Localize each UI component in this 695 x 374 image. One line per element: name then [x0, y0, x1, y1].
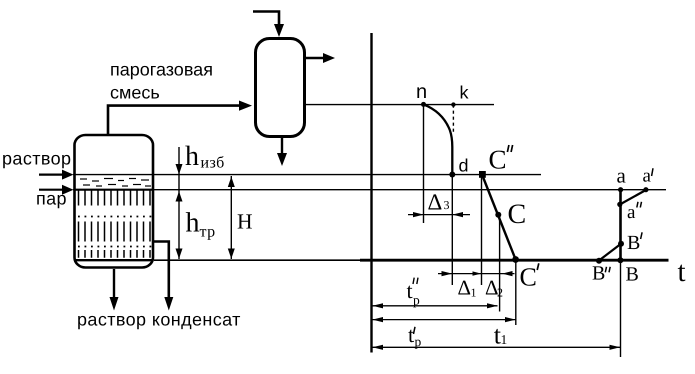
point d: [449, 172, 455, 178]
delta3 dimension: [408, 214, 470, 216]
point a: [618, 187, 623, 192]
svg-text:парогазовая: парогазовая: [110, 60, 213, 80]
svg-text:изб: изб: [201, 155, 225, 172]
svg-text:Δ: Δ: [428, 190, 443, 215]
svg-text:d: d: [459, 156, 469, 176]
separator bottom arrow: [277, 153, 287, 166]
steam inlet arrow: [39, 189, 62, 191]
svg-text:a: a: [627, 202, 636, 223]
svg-text:C: C: [508, 199, 527, 230]
top pipe from evaporator: [108, 106, 240, 134]
svg-text:t: t: [408, 322, 414, 347]
thin vertical below d: [451, 175, 453, 286]
h_izb dimension line: [178, 147, 180, 259]
point C2 square: [479, 171, 486, 178]
bottom arrow 1: [110, 297, 119, 311]
svg-text:h: h: [186, 208, 200, 239]
point B1: [618, 241, 624, 247]
point n: [421, 102, 426, 107]
svg-text:1: 1: [501, 332, 508, 347]
separator right outlet arrow: [306, 57, 324, 59]
svg-text:раствор: раствор: [2, 148, 71, 168]
point B: [617, 257, 623, 263]
svg-text:h: h: [185, 141, 199, 172]
steam level line (y=189.7): [73, 189, 666, 191]
t-axis thin left part: [154, 259, 372, 261]
tube dot row 2: [78, 246, 152, 248]
tube dot row 1: [78, 216, 152, 218]
thin vertical below C2: [481, 175, 483, 286]
svg-text:Δ: Δ: [458, 275, 472, 299]
svg-text:пар: пар: [36, 188, 67, 208]
arrow into separator: [239, 101, 252, 111]
tp1 dimension: [373, 319, 516, 321]
thin vertical below C1: [515, 260, 517, 326]
svg-text:B: B: [626, 263, 639, 285]
svg-text:t: t: [678, 256, 686, 288]
svg-text:H: H: [237, 210, 253, 234]
liquid level band line (solution line y=174.5): [73, 174, 541, 176]
point C1: [512, 256, 519, 263]
thin vertical below C: [499, 215, 501, 312]
dashed k drop line: [452, 105, 454, 133]
separator top arrow: [274, 24, 284, 37]
svg-text:C: C: [520, 263, 537, 292]
point C: [495, 212, 501, 218]
svg-text:p: p: [413, 293, 420, 308]
vertical temperature axis: [370, 33, 372, 353]
t1 dimension: [373, 346, 621, 348]
svg-text:тр: тр: [200, 224, 216, 241]
vapor line from separator to graph (n-k line): [306, 104, 494, 106]
condensate side pipe: [153, 242, 169, 299]
cooling curve n-d: [424, 104, 453, 174]
tube bundle verticals band 1: [79, 191, 151, 206]
vertical a-B line: [619, 190, 622, 261]
svg-text:2: 2: [497, 286, 503, 300]
H dimension line: [230, 176, 232, 259]
svg-text:смесь: смесь: [110, 83, 160, 103]
bottom arrow 2: [164, 297, 173, 311]
bottom tube sheet: [76, 259, 152, 261]
tp2 dimension: [373, 305, 498, 307]
svg-text:t: t: [407, 278, 413, 303]
svg-text:a: a: [617, 164, 627, 188]
point k: [451, 102, 455, 106]
point a2: [617, 202, 622, 207]
delta1 delta2 dimension: [438, 273, 515, 275]
point a1: [643, 187, 648, 192]
bottom pipe from vessel: [113, 269, 115, 298]
tube bundle verticals band 3: [79, 250, 151, 258]
svg-text:B: B: [627, 232, 640, 254]
t-axis: [360, 259, 669, 262]
boiling line C2 to C1: [482, 175, 516, 260]
svg-text:3: 3: [444, 198, 450, 212]
svg-text:n: n: [416, 81, 427, 103]
liquid foam dashes inside band: [80, 179, 151, 187]
separator vessel: [256, 39, 305, 137]
separator top inlet pipe: [253, 12, 279, 26]
svg-text:C: C: [489, 144, 507, 174]
svg-text:k: k: [460, 83, 470, 103]
separator bottom outlet pipe: [281, 138, 283, 154]
thin vertical below B: [620, 260, 622, 357]
tube bundle verticals band 2: [79, 222, 151, 242]
svg-text:раствор конденсат: раствор конденсат: [77, 309, 241, 329]
band bottom line thick inside vessel: [75, 189, 152, 191]
svg-text:a: a: [643, 165, 652, 186]
evaporator vessel body: [75, 135, 154, 268]
a1 to a2 diagonal: [620, 190, 646, 205]
svg-text:1: 1: [471, 286, 477, 300]
thin vertical through n: [423, 104, 425, 223]
solution inlet arrow: [39, 174, 62, 176]
B2 to B1 diagonal: [599, 244, 621, 261]
svg-text:p: p: [415, 334, 422, 349]
point B2: [596, 258, 602, 264]
svg-text:B: B: [592, 262, 605, 284]
